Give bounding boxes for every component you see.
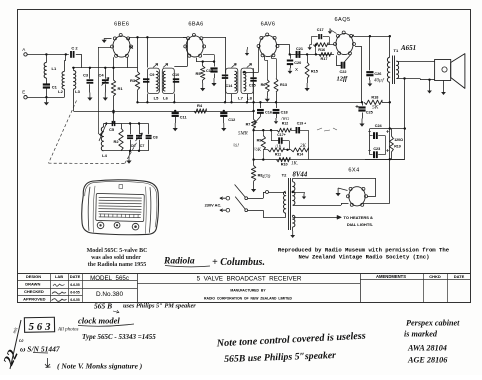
svg-text:the Radiola name 1955: the Radiola name 1955	[88, 262, 147, 268]
cabinet knob 1	[97, 222, 104, 229]
node osc top	[112, 111, 114, 113]
svg-text:C17+: C17+	[277, 133, 285, 137]
ground at C17 loop	[310, 44, 312, 46]
resistor R2	[121, 124, 123, 129]
capacitor C16	[260, 102, 262, 108]
filter bottom wire	[365, 159, 405, 161]
wire down to IFT1 primary	[147, 37, 149, 67]
svg-text:A651: A651	[400, 44, 416, 52]
svg-text:R16: R16	[318, 48, 325, 52]
B+ vertical to rectifier	[389, 129, 391, 160]
node plate coupling	[289, 53, 291, 55]
resistor R9	[263, 130, 265, 135]
svg-text:A: A	[22, 47, 25, 52]
wire 6BA6 cathode	[196, 58, 198, 62]
top line 6BA6 plate to IFT2	[203, 37, 226, 39]
node C2 left	[65, 53, 67, 55]
HT top wire to rectifier	[292, 178, 294, 182]
wire T1 primary bottom down (B+)	[389, 82, 391, 128]
filter box top wire	[370, 128, 405, 130]
capacitor C21	[296, 51, 298, 58]
node at L1 top	[45, 53, 47, 55]
svg-text:5MR: 5MR	[238, 132, 248, 137]
svg-text:C14: C14	[226, 84, 234, 88]
wire L1 to C1	[46, 78, 48, 84]
svg-text:T2: T2	[282, 173, 287, 178]
svg-text:C24: C24	[375, 124, 383, 128]
svg-text:LAB: LAB	[55, 274, 63, 279]
cabinet dial frame	[96, 193, 145, 221]
wire aerial to C2	[27, 54, 69, 56]
node speaker return	[403, 77, 405, 79]
border frame	[18, 10, 471, 303]
svg-text:DRAWN: DRAWN	[25, 282, 40, 287]
mains terminal 2	[226, 208, 230, 212]
cabinet dial scale ticks	[99, 213, 141, 217]
detector/AF V3 6AV6	[259, 35, 276, 56]
C22 left wire	[336, 65, 342, 67]
capacitor C2 (series aerial)	[70, 51, 72, 58]
svg-text:6-6-55: 6-6-55	[70, 290, 79, 294]
svg-text:R17: R17	[321, 57, 328, 61]
node rail at C25	[361, 101, 363, 103]
svg-text:C11: C11	[180, 116, 187, 120]
capacitor C20 tone	[290, 54, 292, 58]
svg-text:C19 +: C19 +	[297, 121, 306, 125]
switch blade 1	[235, 185, 246, 198]
capacitor C6	[130, 124, 132, 135]
svg-text:2K: 2K	[300, 144, 307, 149]
node T1 top	[389, 35, 391, 37]
wire down to 6X4 plate	[375, 178, 377, 196]
svg-text:​is marked: ​is marked	[404, 330, 438, 339]
svg-text:120Ω: 120Ω	[394, 138, 403, 142]
wire R1 bottom crossing AVC bus to oscillator	[113, 96, 115, 124]
title block grid	[18, 273, 472, 275]
coil L4 oscillator	[103, 124, 105, 128]
coil L6	[163, 71, 165, 91]
wire C1 to earth line	[46, 88, 48, 97]
ground below R5	[202, 80, 204, 83]
IFT1 can box secondary	[162, 68, 174, 94]
capacitor C8	[148, 124, 150, 135]
svg-text:Perspex cabinet: Perspex cabinet	[406, 319, 460, 328]
svg-text:DATE: DATE	[454, 274, 465, 279]
svg-text:6AV6: 6AV6	[261, 21, 276, 27]
svg-text:C15: C15	[249, 84, 256, 88]
svg-text:/1K: /1K	[274, 144, 283, 149]
capacitor C4 trimmer	[105, 68, 107, 79]
wire 6BA6 grid pin	[183, 37, 186, 39]
resistor R18 in rail	[364, 100, 382, 104]
svg-text:T1: T1	[394, 48, 399, 53]
IFT2 can box secondary	[241, 68, 253, 94]
IFT2 primary adjust arrow	[232, 64, 237, 68]
wire R3 bottom to bus	[137, 90, 139, 102]
wire L2 top	[65, 54, 67, 60]
capacitor C3 (tuning gang section)	[89, 68, 91, 79]
6BE6 grid cap ground	[104, 38, 111, 40]
svg-text:L8: L8	[247, 95, 252, 100]
L4 adjustment arrow	[99, 123, 107, 142]
svg-text:Model 565C 5-valve BC: Model 565C 5-valve BC	[87, 248, 148, 254]
wire L3 top	[73, 68, 75, 71]
wire L3 bottom down to AVC bus	[73, 89, 75, 111]
resistor R13	[271, 56, 273, 59]
wire C24 C23 right join	[385, 136, 387, 155]
node B+ on vertical	[389, 101, 391, 103]
bus line D (back bias)	[253, 159, 404, 161]
svg-text:565 B: 565 B	[94, 302, 112, 311]
svg-text:/WG: /WG	[280, 116, 290, 121]
svg-text:L3: L3	[75, 89, 80, 94]
coil L5	[156, 71, 158, 91]
svg-text:C4: C4	[98, 73, 104, 78]
svg-text:ω: ω	[19, 337, 24, 344]
HT centre tap ground	[292, 191, 294, 193]
svg-text:C21: C21	[296, 47, 303, 51]
T2 primary winding	[284, 191, 286, 213]
mesh branch line	[254, 130, 277, 132]
speaker magnet box	[435, 60, 451, 81]
wire 6AV6 plate to coupling	[277, 44, 290, 46]
ground below C11	[175, 116, 177, 123]
svg-text:CHECKED: CHECKED	[24, 289, 44, 294]
terminal A (aerial)	[24, 53, 27, 56]
dashed gang line bottom	[49, 162, 125, 164]
svg-text:R1: R1	[118, 86, 124, 91]
C22 wire to cathode pin	[344, 54, 351, 62]
resistor R14	[291, 148, 309, 152]
wire earth	[27, 97, 46, 99]
6AQ5 beam plate ground	[330, 30, 337, 34]
grid rail (AVC) front end	[72, 67, 137, 69]
svg-text:uses Philips 5″ PM speaker: uses Philips 5″ PM speaker	[123, 303, 196, 310]
node filter top	[389, 127, 391, 129]
ground below C4	[104, 93, 106, 98]
svg-text:6BA6: 6BA6	[188, 21, 203, 27]
drawn signature	[53, 284, 65, 286]
boxed 563	[24, 317, 54, 332]
svg-text:clock model: clock model	[78, 316, 120, 326]
resistor R15 grid leak	[306, 53, 308, 55]
wire C17 right riser	[289, 141, 291, 150]
wire R17 riser	[315, 45, 317, 55]
svg-text:½K: ½K	[254, 148, 262, 153]
wire IFT2 secondary to 6AV6 grid	[243, 71, 245, 73]
heater winding ground	[292, 227, 294, 231]
svg-text:L7: L7	[238, 95, 243, 100]
svg-text:L6: L6	[163, 96, 168, 101]
svg-text:R13: R13	[280, 83, 287, 87]
ground below C13	[214, 74, 216, 79]
output valve V4 6AQ5	[336, 33, 353, 54]
wire 6BA6 screen riser	[203, 54, 214, 56]
switch wiring to T2	[248, 198, 264, 200]
svg-text:RADIO CORPORATION OF NEW Z: RADIO CORPORATION OF NEW ZEALAND LIMITED	[204, 297, 292, 301]
svg-text:R12: R12	[282, 121, 288, 125]
svg-text:R14: R14	[297, 152, 303, 156]
svg-text:C8: C8	[153, 136, 158, 140]
coil L3	[74, 71, 76, 90]
svg-text:470: 470	[262, 173, 271, 180]
volume control R7	[253, 102, 255, 119]
svg-text:R5: R5	[195, 71, 201, 76]
svg-text:C12: C12	[228, 118, 235, 122]
6AQ5 screen drop to rail B	[355, 46, 361, 48]
T2 core	[288, 178, 290, 230]
handwritten arrow mark	[113, 310, 119, 313]
ground below C20	[290, 64, 292, 68]
svg-text:6AQ5: 6AQ5	[335, 17, 351, 23]
svg-text:L5: L5	[154, 96, 159, 101]
wire pot riser to IFT2 diode return	[253, 93, 255, 103]
wire L1 top	[46, 54, 48, 62]
svg-text:APPROVED: APPROVED	[23, 296, 46, 301]
svg-text:AGE 28106: AGE 28106	[407, 356, 448, 365]
R6 ground arrow onto rail	[267, 92, 269, 96]
speaker ground 2	[443, 81, 445, 89]
resistor R12 in branch	[277, 128, 291, 132]
transformer T1 secondary	[396, 61, 398, 79]
oscillator top wire	[104, 123, 119, 125]
ground below R15	[307, 79, 309, 84]
oscillator bottom wire	[104, 150, 149, 152]
6X4 cathode wire to B+	[364, 203, 390, 205]
capacitor C15	[250, 77, 256, 79]
svg-text:C3: C3	[83, 73, 89, 78]
svg-text:R10: R10	[281, 162, 288, 166]
svg-text:+ Columbus.: + Columbus.	[212, 257, 265, 268]
speaker cone	[451, 54, 465, 89]
svg-text:L1: L1	[52, 66, 57, 71]
svg-text:C10: C10	[172, 73, 179, 77]
svg-text:C7: C7	[140, 144, 145, 148]
speaker ground 1	[429, 80, 431, 87]
svg-text:C16: C16	[265, 111, 272, 115]
svg-text:6BE6: 6BE6	[114, 21, 129, 27]
svg-text:½!: ½!	[233, 142, 239, 149]
svg-text:R11: R11	[275, 152, 281, 156]
svg-text:C9: C9	[150, 73, 155, 77]
wire R18 to B+ vertical	[382, 102, 390, 104]
wire down to C26	[369, 36, 371, 70]
svg-text:C17: C17	[317, 28, 324, 32]
node R9 top	[262, 129, 264, 131]
svg-text:MANUFACTURED BY: MANUFACTURED BY	[230, 289, 266, 293]
svg-text:E: E	[22, 90, 25, 95]
plate supply line to T1	[354, 36, 390, 38]
cabinet left pillar	[88, 187, 90, 231]
radio cabinet sketch	[81, 179, 159, 236]
capacitor C25 electrolytic	[362, 102, 364, 105]
svg-text:AWA 28104: AWA 28104	[407, 344, 447, 353]
svg-text:12ff: 12ff	[337, 76, 349, 83]
svg-text:C20: C20	[294, 61, 301, 65]
6X4 grid-side ground arrow	[338, 188, 347, 191]
bus line C (AVC)	[74, 111, 254, 113]
svg-text:D.No.380: D.No.380	[96, 291, 123, 298]
capacitor C9	[143, 78, 149, 80]
coupling line to 6AQ5 grid	[290, 54, 334, 56]
wire oscillator grid drop	[98, 47, 111, 49]
switch blade 2	[235, 197, 245, 210]
capacitor C5	[111, 121, 113, 126]
resistor R17	[319, 52, 331, 56]
T2 HT secondary	[293, 182, 295, 205]
wire T1 primary top	[389, 36, 391, 57]
resistor R1	[113, 57, 115, 80]
capacitor C12	[223, 111, 225, 112]
IFT2 secondary adjust arrow	[247, 64, 252, 68]
wire R11-R14 join	[284, 149, 291, 151]
ground below C3	[89, 93, 91, 98]
svg-text:5 6 3: 5 6 3	[29, 321, 52, 333]
svg-text:CHKD: CHKD	[429, 274, 441, 279]
cabinet knob 3	[132, 223, 139, 230]
wire 6BE6 plate to top line	[128, 37, 130, 39]
ground below E	[45, 97, 47, 102]
IFT1 primary adjust arrow	[153, 64, 158, 68]
filter left wire	[369, 129, 371, 155]
wire secondary top to speaker	[396, 61, 434, 63]
svg-text:TO HEATERS &: TO HEATERS &	[344, 215, 374, 220]
wire plate line to IFT2	[225, 37, 227, 67]
top line 6BE6 plate to IFT1	[130, 37, 186, 39]
ground below C25	[362, 113, 364, 119]
node R1 on AVC bus	[112, 110, 114, 112]
capacitor C22	[341, 62, 343, 69]
svg-text:C1: C1	[52, 85, 58, 90]
wire secondary bottom to speaker	[396, 78, 420, 80]
resistor R16	[313, 43, 328, 47]
svg-text:New Zealand Vintage Radio Soci: New Zealand Vintage Radio Society (Inc)	[299, 253, 430, 260]
capacitor C13	[214, 62, 216, 67]
svg-text:R4: R4	[197, 103, 203, 108]
speaker voice coil circle	[442, 67, 447, 72]
6BE6 NC pin cross	[130, 46, 133, 49]
switch pivot 2	[245, 209, 248, 212]
C17 loop wires	[311, 36, 317, 38]
switch wire 2 to T2	[248, 210, 264, 212]
svg-text:R19: R19	[394, 145, 401, 149]
terminal E (earth)	[24, 96, 27, 99]
capacitor C26 electrolytic	[366, 71, 373, 73]
bus line B (under IF transformers)	[138, 102, 363, 104]
svg-text:5 VALVE BROADCAST RECEIVER: 5 VALVE BROADCAST RECEIVER	[197, 276, 302, 283]
switch pivot 1	[245, 197, 248, 200]
svg-text:DESIGN: DESIGN	[26, 274, 41, 279]
resistor R8 back bias	[251, 166, 255, 182]
svg-text:40µƒ: 40µƒ	[374, 79, 385, 84]
svg-text:Radiola: Radiola	[163, 257, 195, 267]
mains terminal 1	[226, 196, 230, 200]
dashed gang line to oscillator	[125, 141, 138, 164]
capacitor C7 padder trimmer	[139, 124, 141, 135]
svg-text:( Note V. Monks signature ): ( Note V. Monks signature )	[57, 362, 143, 371]
svg-text:R18: R18	[371, 96, 378, 100]
node R17 junction	[315, 53, 317, 55]
heater winding output arrow	[292, 215, 294, 217]
IFT2 can box primary	[226, 68, 238, 94]
wire IFT1 secondary to 6BA6 grid	[174, 66, 187, 68]
transformer T1 primary	[387, 57, 389, 82]
speaker return wire down	[404, 79, 406, 129]
6AV6 grid return arrow	[247, 47, 249, 50]
capacitor C11	[175, 111, 177, 112]
rectifier V5 6X4	[349, 187, 365, 206]
cabinet dial lines	[99, 197, 142, 198]
dashed gang line from C4	[49, 101, 77, 164]
T1 core	[392, 56, 394, 85]
pentagrid converter V1 6BE6	[113, 36, 130, 57]
svg-text:was also sold under: was also sold under	[91, 255, 141, 261]
ground below C18	[276, 113, 278, 118]
checked signature	[52, 292, 66, 294]
IFT1 secondary adjust arrow	[163, 64, 168, 68]
wiper arrow from C16 to volume pot	[255, 113, 261, 123]
wire osc caps top	[121, 123, 149, 125]
wire R16 to grid pin	[328, 44, 334, 46]
link circle	[266, 191, 269, 194]
svg-text:C18: C18	[281, 111, 288, 115]
filter right wire	[404, 129, 406, 160]
node pot branch	[252, 129, 254, 131]
svg-text:AMENDMENTS: AMENDMENTS	[376, 274, 406, 279]
svg-text:C13: C13	[206, 69, 213, 73]
coil L8	[244, 71, 246, 91]
ground below C12	[223, 116, 225, 123]
IFT1 can box primary	[147, 68, 159, 94]
IFT1 bottoms to bus	[147, 94, 149, 103]
node E junction	[45, 96, 47, 98]
IF amplifier V2 6BA6	[186, 36, 203, 57]
svg-text:C25: C25	[366, 111, 373, 115]
resistor R11	[268, 148, 284, 152]
resistor R19	[391, 129, 393, 136]
svg-text:X: X	[295, 67, 298, 72]
svg-text:R9: R9	[257, 139, 262, 143]
arrow into L4	[98, 133, 101, 137]
ground oscillator	[129, 151, 131, 156]
svg-text:Reproduced by Radio Museum wit: Reproduced by Radio Museum with permissi…	[278, 246, 450, 253]
capacitor C14	[225, 67, 227, 73]
coil L2	[62, 72, 64, 90]
resistor R3 AVC	[137, 37, 139, 71]
svg-text:DATE: DATE	[70, 274, 81, 279]
node R9 rail D	[262, 158, 264, 160]
capacitor C10	[173, 78, 179, 80]
svg-text:6-6-55: 6-6-55	[70, 283, 79, 287]
coil L7	[235, 71, 237, 91]
approved signature	[52, 299, 67, 302]
svg-text:C5: C5	[109, 127, 115, 132]
svg-text:R7: R7	[246, 123, 251, 127]
coil L1	[44, 63, 46, 79]
wire 6BE6 screen pin to rail	[127, 57, 129, 68]
node C26 branch	[369, 35, 371, 37]
capacitor C1	[43, 83, 50, 85]
ground below R8	[253, 181, 255, 184]
svg-text:DIAL LIGHTS.: DIAL LIGHTS.	[347, 222, 373, 227]
resistor R5	[202, 62, 204, 66]
svg-text:230V AC.: 230V AC.	[205, 203, 222, 208]
handwritten monks note arrow	[45, 358, 51, 368]
wire C2 to grid rail	[76, 54, 82, 56]
wire R14 to rail corner	[308, 130, 310, 159]
svg-text:ω S/N 51447: ω S/N 51447	[20, 345, 60, 354]
svg-text:R3: R3	[130, 78, 136, 83]
